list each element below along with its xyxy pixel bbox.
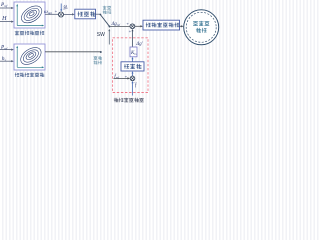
label motoring mode (dian dong gong kuang)	[94, 56, 102, 64]
switch SW blade	[100, 15, 109, 27]
block filter/governor in freq-control loop	[121, 62, 144, 71]
block guide-vane actuator	[143, 20, 180, 30]
caption: supplementary frequency control (fake CJK)	[114, 98, 143, 102]
svg-text:Δg′: Δg′	[135, 42, 143, 47]
node switch lower contact	[100, 51, 102, 53]
wire S3 to filter (up arrow)	[132, 72, 134, 76]
svg-text:ωopt: ωopt	[44, 9, 52, 15]
wire S1 to governor	[64, 13, 74, 15]
summing junction S3	[130, 76, 135, 81]
wire K gain to S2 (up arrow)	[132, 30, 134, 47]
label pump-turbine (fake CJK two lines)	[193, 21, 209, 32]
dashed box: supplementary frequency control module	[113, 38, 148, 93]
svg-text:−: −	[63, 8, 66, 13]
block governor (tiao su qi)	[75, 9, 96, 19]
hill-chart contour ellipses of U1	[18, 2, 44, 26]
svg-text:f: f	[135, 84, 137, 89]
svg-text:H: H	[1, 16, 7, 22]
wire Pref to vane-opt module	[0, 49, 13, 51]
wire hs to vane-opt module	[0, 60, 13, 62]
svg-text:+: +	[126, 21, 129, 26]
wire H to speed-opt module	[0, 21, 13, 23]
block K gain	[130, 47, 137, 57]
hill-chart contour ellipses of U2	[18, 44, 44, 68]
block U2 guide-vane optimization module box	[14, 44, 45, 70]
summing junction S1	[59, 12, 64, 17]
svg-text:+: +	[55, 8, 58, 13]
hill-chart axes of U2	[17, 47, 43, 67]
wire filter to K gain (up arrow)	[132, 58, 134, 61]
wire f input from below (up arrow)	[132, 82, 134, 95]
svg-text:Pref: Pref	[0, 2, 8, 8]
svg-text:+: +	[129, 29, 132, 34]
svg-text:KG: KG	[130, 51, 137, 56]
svg-text:SW: SW	[97, 32, 105, 38]
node switch common junction	[109, 26, 111, 28]
label generation mode (fa dian gong kuang)	[103, 6, 111, 14]
wire actuator to pump-turbine	[180, 25, 183, 27]
wire U1 out to summing junction S1, label w_opt	[45, 13, 59, 15]
wire switch common to summing junction S2	[110, 25, 130, 27]
wire omega input from top	[60, 4, 62, 11]
machine pump-turbine circle	[184, 10, 219, 45]
node switch top contact	[100, 14, 102, 16]
caption: speed optimization module (fake CJK)	[15, 31, 44, 35]
wire switch lower lead (dangling, arrow up)	[108, 30, 110, 44]
block U1 speed optimization module box	[14, 2, 45, 28]
wire f_ref to S3	[114, 77, 130, 79]
summing junction S2	[130, 24, 135, 29]
wire governor to switch top contact	[96, 13, 101, 15]
inner dashed ring of pump-turbine	[186, 12, 216, 42]
wire S2 to actuator	[135, 25, 142, 27]
hill-chart axes of U1	[17, 5, 43, 25]
wire U2 out to switch lower contact	[45, 51, 100, 53]
caption: guide-vane optimization module (fake CJK)	[15, 73, 44, 77]
wire Pref to speed-opt module	[0, 7, 13, 9]
